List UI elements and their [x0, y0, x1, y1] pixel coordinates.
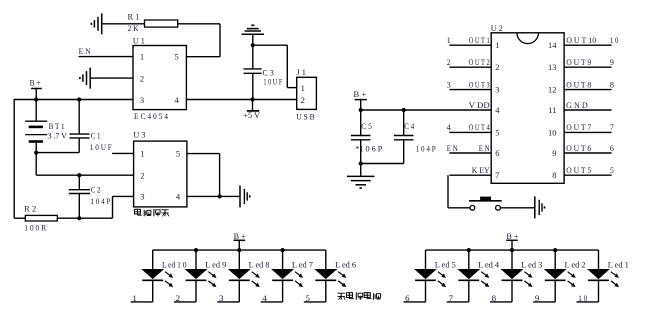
wire LED bus	[426, 249, 599, 251]
svg-text:R 1: R 1	[128, 13, 140, 22]
junction C5	[359, 108, 363, 112]
svg-text:4: 4	[447, 123, 451, 132]
op-amp U1 EC4054	[133, 46, 186, 110]
wire G4 stem	[252, 34, 254, 45]
svg-text:1 0 U F: 1 0 U F	[90, 143, 112, 152]
svg-text:O U T 6: O U T 6	[566, 144, 591, 153]
svg-text:8: 8	[492, 294, 497, 303]
svg-text:2: 2	[176, 294, 181, 303]
wire U2 pin 14	[564, 44, 612, 46]
capacitor C4	[394, 110, 414, 164]
wire U2 pin 1	[449, 44, 491, 46]
wire battery minus down	[35, 153, 37, 176]
wire anode drop L ed 2	[554, 250, 556, 269]
svg-text:1: 1	[140, 149, 144, 159]
capacitor C1	[70, 100, 90, 153]
wire R1 to U1 pin5	[178, 24, 220, 57]
LED L ed 3	[502, 269, 533, 287]
svg-text:K EY: K EY	[472, 166, 490, 175]
ground G2	[80, 68, 90, 89]
svg-text:11: 11	[548, 105, 556, 115]
svg-text:B +: B +	[30, 78, 41, 87]
svg-text:U 3: U 3	[133, 131, 145, 140]
svg-text:8: 8	[610, 80, 614, 89]
wire cathode L ed 6	[304, 280, 326, 302]
wire cathode L ed 1 0	[131, 280, 153, 302]
svg-text:J 1: J 1	[296, 68, 306, 77]
svg-text:1 0 4 P: 1 0 4 P	[416, 144, 436, 153]
svg-text:1 0 0 R: 1 0 0 R	[24, 224, 47, 233]
svg-text:8: 8	[552, 170, 556, 180]
IC U2	[491, 33, 564, 184]
wire G2 to U1 pin2	[90, 77, 133, 79]
wire EN to U1 pin1	[79, 56, 133, 58]
wire U1 pin4 to J1	[186, 99, 296, 101]
label battery protect hanzi	[135, 209, 169, 217]
junction LED bus	[237, 248, 241, 252]
svg-text:3 .7 V: 3 .7 V	[48, 132, 67, 141]
svg-text:L ed 9: L ed 9	[205, 260, 226, 269]
svg-text:C 3: C 3	[263, 68, 275, 77]
svg-text:C 2: C 2	[91, 185, 101, 194]
svg-text:9: 9	[552, 148, 556, 158]
LED L ed 4	[458, 269, 489, 287]
svg-text:2: 2	[140, 170, 144, 180]
svg-text:3: 3	[219, 294, 224, 303]
resistor R2	[14, 215, 112, 221]
capacitor C2	[69, 175, 90, 218]
svg-text:6: 6	[405, 294, 410, 303]
wire cathode L ed 3	[490, 280, 512, 302]
wire to U3 pin2	[36, 174, 133, 176]
junction C3 bottom	[250, 97, 254, 101]
svg-text:G N D: G N D	[566, 101, 588, 110]
svg-text:+5 V: +5 V	[243, 111, 260, 120]
svg-text:2: 2	[495, 62, 499, 72]
wire anode drop L ed 9	[195, 250, 197, 269]
svg-text:1: 1	[495, 40, 499, 50]
svg-text:9: 9	[610, 58, 614, 67]
svg-text:O U T 9: O U T 9	[566, 58, 591, 67]
svg-text:L ed 6: L ed 6	[335, 260, 356, 269]
svg-text:3: 3	[140, 191, 144, 201]
junction C4	[402, 108, 406, 112]
wire U2 pin 6	[449, 152, 491, 154]
resistor R1	[145, 20, 178, 27]
switch SW1	[469, 197, 502, 211]
svg-text:E N: E N	[447, 144, 458, 153]
LED L ed 8	[229, 269, 260, 287]
wire U2 pin 11	[564, 109, 612, 111]
wire U2 pin 10	[564, 131, 612, 133]
svg-text:U 1: U 1	[133, 37, 145, 46]
wire anode drop L ed 3	[511, 250, 513, 269]
LED L ed 2	[545, 269, 576, 287]
junction G4	[251, 43, 255, 47]
wire B+ to VDD	[361, 109, 492, 111]
svg-text:1: 1	[301, 83, 305, 93]
wire cathode L ed 7	[261, 280, 283, 302]
wire U2 pin 5	[449, 131, 491, 133]
svg-text:1: 1	[447, 36, 451, 45]
wire anode drop L ed 5	[425, 250, 427, 269]
LED L ed 1	[588, 269, 619, 287]
wire ground to J1 pin1	[253, 45, 297, 87]
svg-text:C 4: C 4	[404, 122, 414, 131]
ground G4	[242, 25, 264, 34]
wire G1 to R1	[102, 23, 145, 25]
wire left rail	[13, 99, 15, 218]
svg-text:12: 12	[548, 85, 557, 95]
junction B+	[34, 97, 38, 101]
junction LED bus	[467, 248, 471, 252]
svg-text:5: 5	[306, 294, 311, 303]
junction LED bus	[553, 248, 557, 252]
svg-text:C 1: C 1	[91, 132, 101, 141]
svg-text:2: 2	[140, 73, 144, 83]
wire U3 pin4 to ground	[187, 195, 240, 197]
junction C2 top	[77, 173, 81, 177]
junction C5 bottom	[359, 161, 363, 165]
wire U2 pin 3	[449, 89, 491, 91]
label charge indicator hanzi	[338, 292, 381, 300]
ground G6	[535, 196, 545, 218]
svg-text:1: 1	[140, 52, 144, 62]
svg-text:3: 3	[447, 80, 451, 89]
capacitor C5	[351, 110, 371, 164]
wire U2 pin 9	[564, 152, 612, 154]
svg-text:E C 4 0 5 4: E C 4 0 5 4	[134, 112, 168, 121]
wire battery minus to C1 bottom	[36, 152, 79, 154]
svg-text:V DD: V DD	[469, 101, 490, 110]
svg-text:13: 13	[548, 62, 557, 72]
svg-text:L ed 8: L ed 8	[249, 260, 270, 269]
svg-text:O U T 10: O U T 10	[566, 36, 596, 45]
svg-text:1: 1	[132, 294, 137, 303]
wire anode drop L ed 7	[282, 250, 284, 269]
wire U2 pin 7	[449, 174, 491, 176]
svg-text:1 0 4 P: 1 0 4 P	[90, 197, 110, 206]
svg-text:6: 6	[495, 148, 499, 158]
LED L ed 1 0	[142, 269, 173, 287]
svg-text:2: 2	[447, 58, 451, 67]
junction LED bus	[510, 248, 514, 252]
svg-text:5: 5	[495, 127, 499, 137]
wire cathode L ed 4	[447, 280, 469, 302]
svg-text:C 5: C 5	[361, 122, 372, 131]
wire button to ground	[500, 207, 534, 209]
svg-text:E N: E N	[479, 144, 490, 153]
svg-text:9: 9	[535, 294, 540, 303]
junction pin4/pin5	[218, 194, 222, 198]
svg-text:2 K: 2 K	[128, 24, 139, 33]
svg-text:L ed 1 0: L ed 1 0	[162, 260, 187, 269]
svg-text:B +: B +	[353, 90, 367, 99]
wire C4 bottom to C5 bottom	[361, 163, 404, 165]
svg-text:R 2: R 2	[24, 204, 36, 213]
svg-text:L ed 2: L ed 2	[565, 260, 586, 269]
svg-text:10: 10	[548, 127, 557, 137]
wire KEY to button	[448, 175, 470, 208]
svg-text:3: 3	[140, 95, 144, 105]
ground G3	[240, 185, 250, 207]
svg-text:L ed 3: L ed 3	[521, 260, 542, 269]
ground G5	[347, 164, 375, 189]
junction C2 bottom	[77, 216, 81, 220]
svg-text:L ed 5: L ed 5	[435, 260, 456, 269]
wire main B+ net to U1 pin3	[14, 99, 133, 101]
wire anode drop L ed 8	[238, 250, 240, 269]
svg-text:14: 14	[548, 40, 557, 50]
svg-text:L ed 4: L ed 4	[478, 260, 499, 269]
capacitor C3	[244, 45, 262, 99]
svg-text:6: 6	[610, 144, 614, 153]
svg-text:O U T 5: O U T 5	[566, 166, 591, 175]
wire up to U3 pin3	[113, 196, 134, 218]
junction battery minus	[34, 151, 38, 155]
wire cathode L ed 5	[404, 280, 426, 302]
svg-text:U S B: U S B	[296, 113, 315, 122]
svg-text:1 0: 1 0	[578, 294, 587, 303]
LED L ed 6	[315, 269, 346, 287]
wire stub U3 pin1	[112, 152, 134, 154]
battery BT1	[25, 100, 47, 153]
svg-text:2: 2	[301, 95, 305, 105]
op-amp U3 battery protection	[134, 141, 187, 207]
svg-text:O U T 7: O U T 7	[566, 123, 591, 132]
wire U2 pin 2	[449, 66, 491, 68]
power B+ LED bank	[506, 232, 519, 250]
junction LED bus	[194, 248, 198, 252]
wire anode drop L ed 1 0	[152, 250, 154, 269]
svg-text:O U T 8: O U T 8	[566, 80, 591, 89]
wire anode drop L ed 1	[598, 250, 600, 269]
svg-text:L ed 7: L ed 7	[292, 260, 313, 269]
wire cathode L ed 9	[174, 280, 196, 302]
svg-text:7: 7	[495, 170, 499, 180]
svg-text:1 0 U F: 1 0 U F	[263, 78, 282, 87]
svg-text:4: 4	[262, 294, 267, 303]
wire U2 pin 8	[564, 174, 612, 176]
svg-text:E N: E N	[79, 47, 91, 56]
power B+ U2	[353, 90, 367, 110]
svg-text:L ed 1: L ed 1	[608, 260, 629, 269]
svg-text:1 0: 1 0	[610, 36, 619, 45]
svg-text:5: 5	[176, 149, 180, 159]
connector J1 USB	[297, 77, 317, 109]
svg-text:B T 1: B T 1	[49, 122, 65, 131]
svg-text:3: 3	[495, 85, 499, 95]
svg-text:O U T 1: O U T 1	[469, 36, 490, 45]
svg-text:B +: B +	[234, 232, 246, 241]
svg-text:4: 4	[495, 105, 500, 115]
svg-text:O U T 4: O U T 4	[469, 123, 490, 132]
svg-text:5: 5	[610, 166, 614, 175]
wire U2 pin 13	[564, 66, 612, 68]
svg-text:O U T 3: O U T 3	[469, 80, 490, 89]
power B+ LED bank	[234, 232, 247, 250]
wire cathode L ed 8	[217, 280, 239, 302]
ground G1	[91, 13, 101, 34]
power +5V tap	[247, 100, 259, 111]
wire anode drop L ed 6	[325, 250, 327, 269]
svg-text:B +: B +	[506, 232, 518, 241]
svg-text:7: 7	[610, 123, 614, 132]
LED L ed 9	[186, 269, 217, 287]
wire cathode L ed 2	[533, 280, 555, 302]
wire LED bus	[153, 249, 326, 251]
wire U2 pin 12	[564, 89, 612, 91]
wire U3 pin5 to ground	[187, 154, 220, 197]
svg-text:5: 5	[175, 52, 179, 62]
LED L ed 5	[415, 269, 446, 287]
junction C1 top	[77, 97, 81, 101]
svg-text:U 2: U 2	[491, 24, 503, 33]
LED L ed 7	[272, 269, 303, 287]
wire cathode L ed 1	[577, 280, 599, 302]
power B+ left	[30, 78, 42, 99]
junction LED bus	[281, 248, 285, 252]
svg-text:4: 4	[176, 191, 181, 201]
svg-text:*1 0 6 P: *1 0 6 P	[355, 144, 383, 153]
wire anode drop L ed 4	[468, 250, 470, 269]
svg-text:O U T 2: O U T 2	[469, 58, 490, 67]
svg-text:7: 7	[449, 294, 454, 303]
